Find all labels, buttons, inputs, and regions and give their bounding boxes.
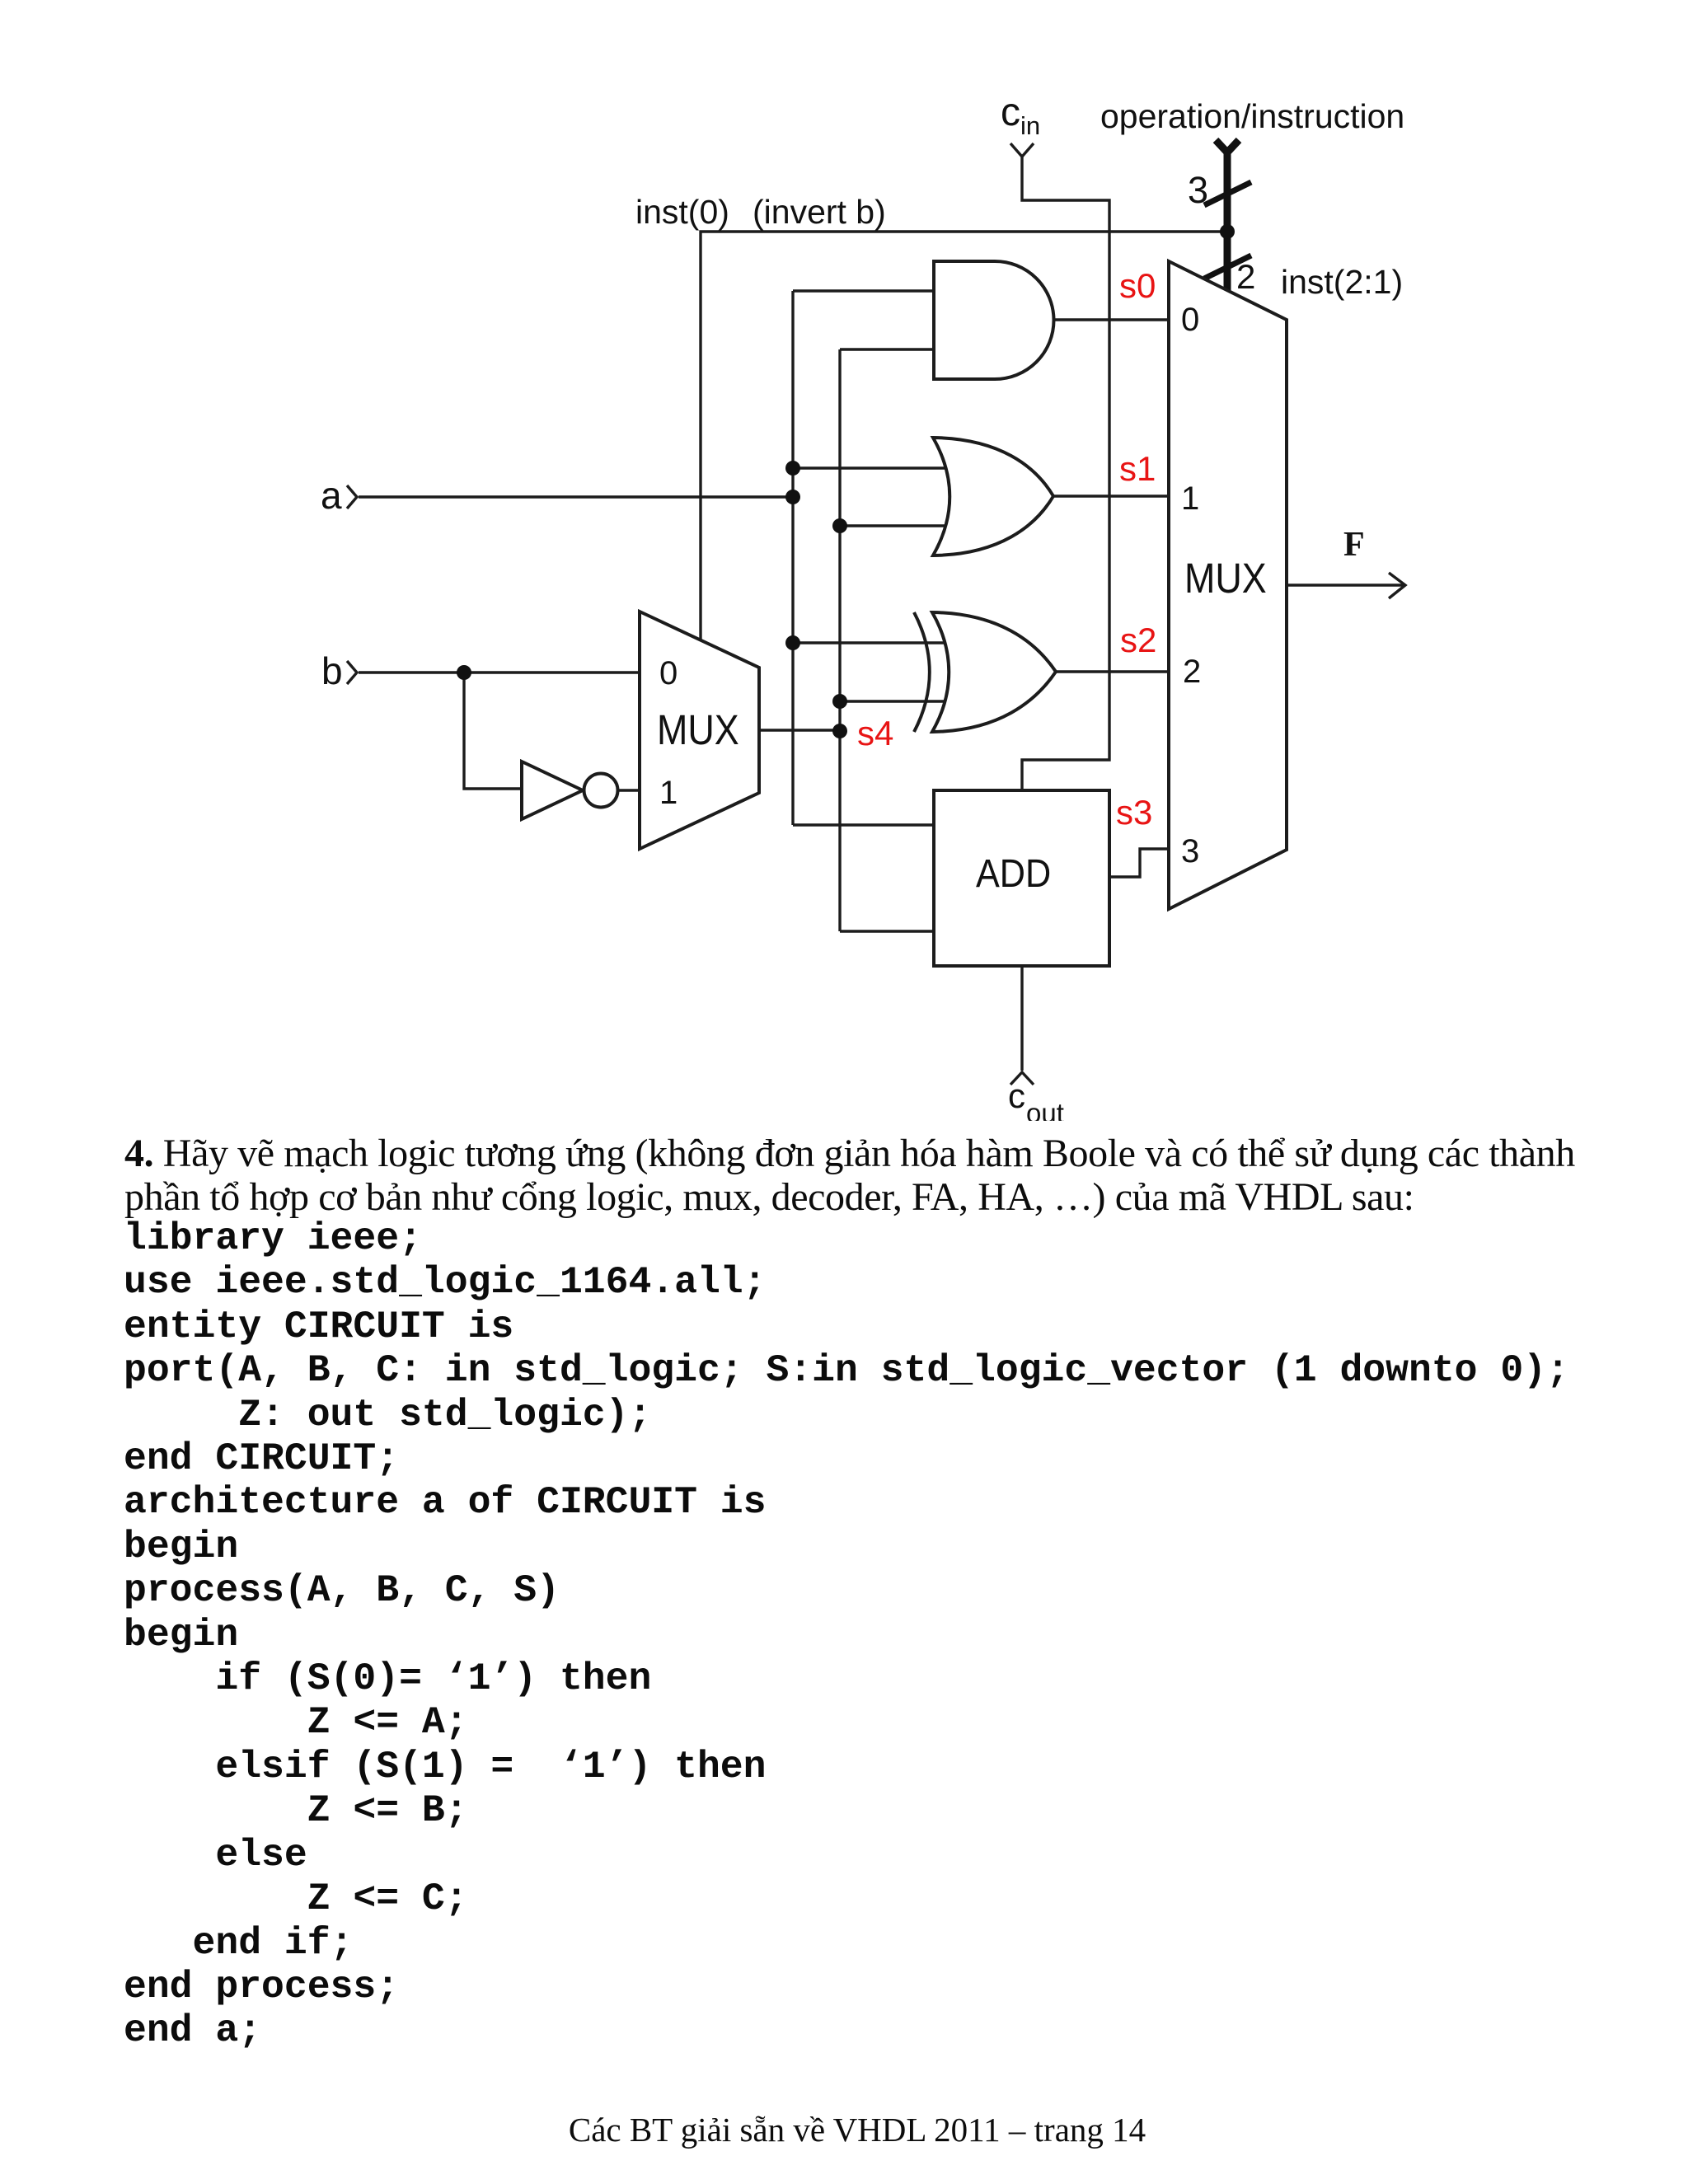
svg-text:s4: s4 [857,714,893,752]
svg-text:MUX: MUX [657,707,739,753]
svg-text:2: 2 [1183,654,1201,690]
svg-text:s1: s1 [1119,449,1156,488]
svg-text:inst(2:1): inst(2:1) [1281,263,1403,301]
svg-text:0: 0 [1181,302,1199,338]
svg-text:s3: s3 [1116,793,1152,832]
svg-text:operation/instruction: operation/instruction [1100,97,1404,135]
svg-text:a: a [321,474,342,517]
svg-text:s0: s0 [1119,266,1156,305]
svg-text:(invert b): (invert b) [753,193,886,231]
svg-text:3: 3 [1181,833,1199,869]
svg-text:b: b [321,649,343,692]
svg-text:ADD: ADD [976,851,1051,896]
svg-text:3: 3 [1188,169,1208,211]
svg-text:MUX: MUX [1184,555,1267,602]
svg-text:1: 1 [659,775,678,811]
svg-text:0: 0 [659,655,678,691]
svg-text:out: out [1026,1098,1064,1121]
svg-text:1: 1 [1181,480,1199,517]
svg-text:inst(0): inst(0) [635,193,729,231]
svg-text:F: F [1343,526,1365,564]
svg-text:2: 2 [1236,257,1255,296]
svg-text:in: in [1020,111,1040,140]
svg-text:c: c [1001,91,1020,134]
svg-text:s2: s2 [1120,621,1156,659]
svg-text:c: c [1008,1076,1025,1115]
